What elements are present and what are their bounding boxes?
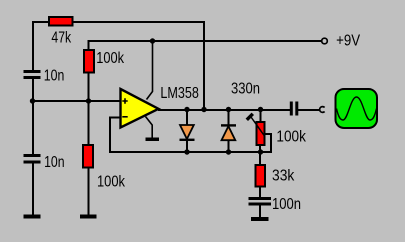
label 100k lower <box>97 174 126 191</box>
wire lower 100k top lead <box>88 100 90 145</box>
capacitor 100n <box>249 197 272 206</box>
node junction pot / bottom rail <box>258 149 263 154</box>
wire potentiometer top lead <box>260 109 262 122</box>
wire diode D1 top lead <box>186 109 188 126</box>
wire left vertical lower segment to ground <box>32 163 34 217</box>
ground under op-amp <box>146 138 160 142</box>
label 10n lower <box>44 154 65 171</box>
node junction D1 / output rail <box>184 107 189 112</box>
resistor 47k <box>49 17 73 26</box>
label 100n <box>272 196 301 213</box>
svg-text:100k: 100k <box>96 50 125 67</box>
scope icon <box>336 89 378 128</box>
svg-text:100k: 100k <box>276 129 306 146</box>
wire op-amp power pin <box>147 40 153 100</box>
node junction D1 / bottom rail <box>184 149 189 154</box>
ground under 10n lower <box>24 215 41 219</box>
wire 33k top lead <box>259 152 261 166</box>
svg-text:LM358: LM358 <box>160 85 199 102</box>
diode D2 (pointing up) <box>221 124 236 140</box>
op-amp U1 LM358 <box>121 89 159 128</box>
wire lower 100k bottom lead to ground <box>88 166 90 216</box>
wire upper 100k bottom lead <box>88 72 90 101</box>
label +9V <box>336 33 360 50</box>
capacitor 330n <box>290 102 299 116</box>
wire diode D1 bottom lead <box>186 140 188 152</box>
wire output to terminal after 330n <box>298 109 320 111</box>
capacitor 10n upper <box>24 70 41 79</box>
svg-text:10n: 10n <box>44 154 65 171</box>
svg-text:100n: 100n <box>272 196 301 213</box>
svg-text:33k: 33k <box>272 168 295 185</box>
wire upper 100k top lead <box>88 40 90 50</box>
node junction at left vertical / +input <box>30 98 35 103</box>
node junction D2 / bottom rail <box>226 149 231 154</box>
wire bottom rail y=151.5 <box>109 151 260 153</box>
resistor 100k upper <box>84 50 94 73</box>
potentiometer 100k body <box>247 114 265 145</box>
node junction 100k / +input <box>86 98 91 103</box>
node junction feedback / output rail <box>201 107 206 112</box>
label 100k upper <box>96 50 125 67</box>
svg-text:100k: 100k <box>97 174 126 191</box>
wire left vertical upper segment <box>32 21 34 71</box>
wire inverting input horizontal <box>109 117 121 119</box>
label 47k <box>51 30 71 47</box>
terminal output circle (open right) <box>320 107 325 113</box>
wire bias rail y=41 to +9V terminal <box>89 40 323 42</box>
resistor 100k lower <box>83 145 93 168</box>
resistor 33k <box>256 165 266 187</box>
wire feedback vertical x=109 <box>109 117 111 153</box>
svg-text:10n: 10n <box>44 68 65 85</box>
label 33k <box>272 168 295 185</box>
label 10n upper <box>44 68 65 85</box>
wire diode D2 top lead <box>228 109 230 125</box>
wire feedback vertical x=204 down to output rail <box>203 21 205 110</box>
node junction pot / output rail <box>258 107 263 112</box>
wire output rail y=109 <box>158 109 290 111</box>
wire potentiometer wiper bracket <box>259 134 271 152</box>
wire left vertical middle segment <box>32 78 34 155</box>
wire noninverting input horizontal y=100.5 <box>32 100 121 102</box>
wire diode D2 bottom lead <box>227 140 229 152</box>
wire potentiometer bottom lead <box>259 145 261 153</box>
label LM358 <box>160 85 199 102</box>
wire op-amp ground pin <box>146 117 153 139</box>
terminal +9V circle <box>322 38 328 44</box>
wire 100n bottom lead to ground <box>259 205 261 219</box>
node junction power pin / bias rail <box>150 38 155 43</box>
svg-text:47k: 47k <box>51 30 71 47</box>
ground under 100n <box>251 217 269 221</box>
svg-text:330n: 330n <box>231 81 260 98</box>
capacitor 10n lower <box>24 154 41 164</box>
label 330n <box>231 81 260 98</box>
wire top rail from left corner to feedback drop <box>33 21 204 23</box>
label 100k pot <box>276 129 306 146</box>
node junction D2 / output rail <box>226 107 231 112</box>
wire 33k bottom lead <box>259 187 261 198</box>
diode D1 (pointing down) <box>180 125 195 141</box>
ground under 100k lower <box>80 215 97 219</box>
svg-text:+9V: +9V <box>336 33 360 50</box>
